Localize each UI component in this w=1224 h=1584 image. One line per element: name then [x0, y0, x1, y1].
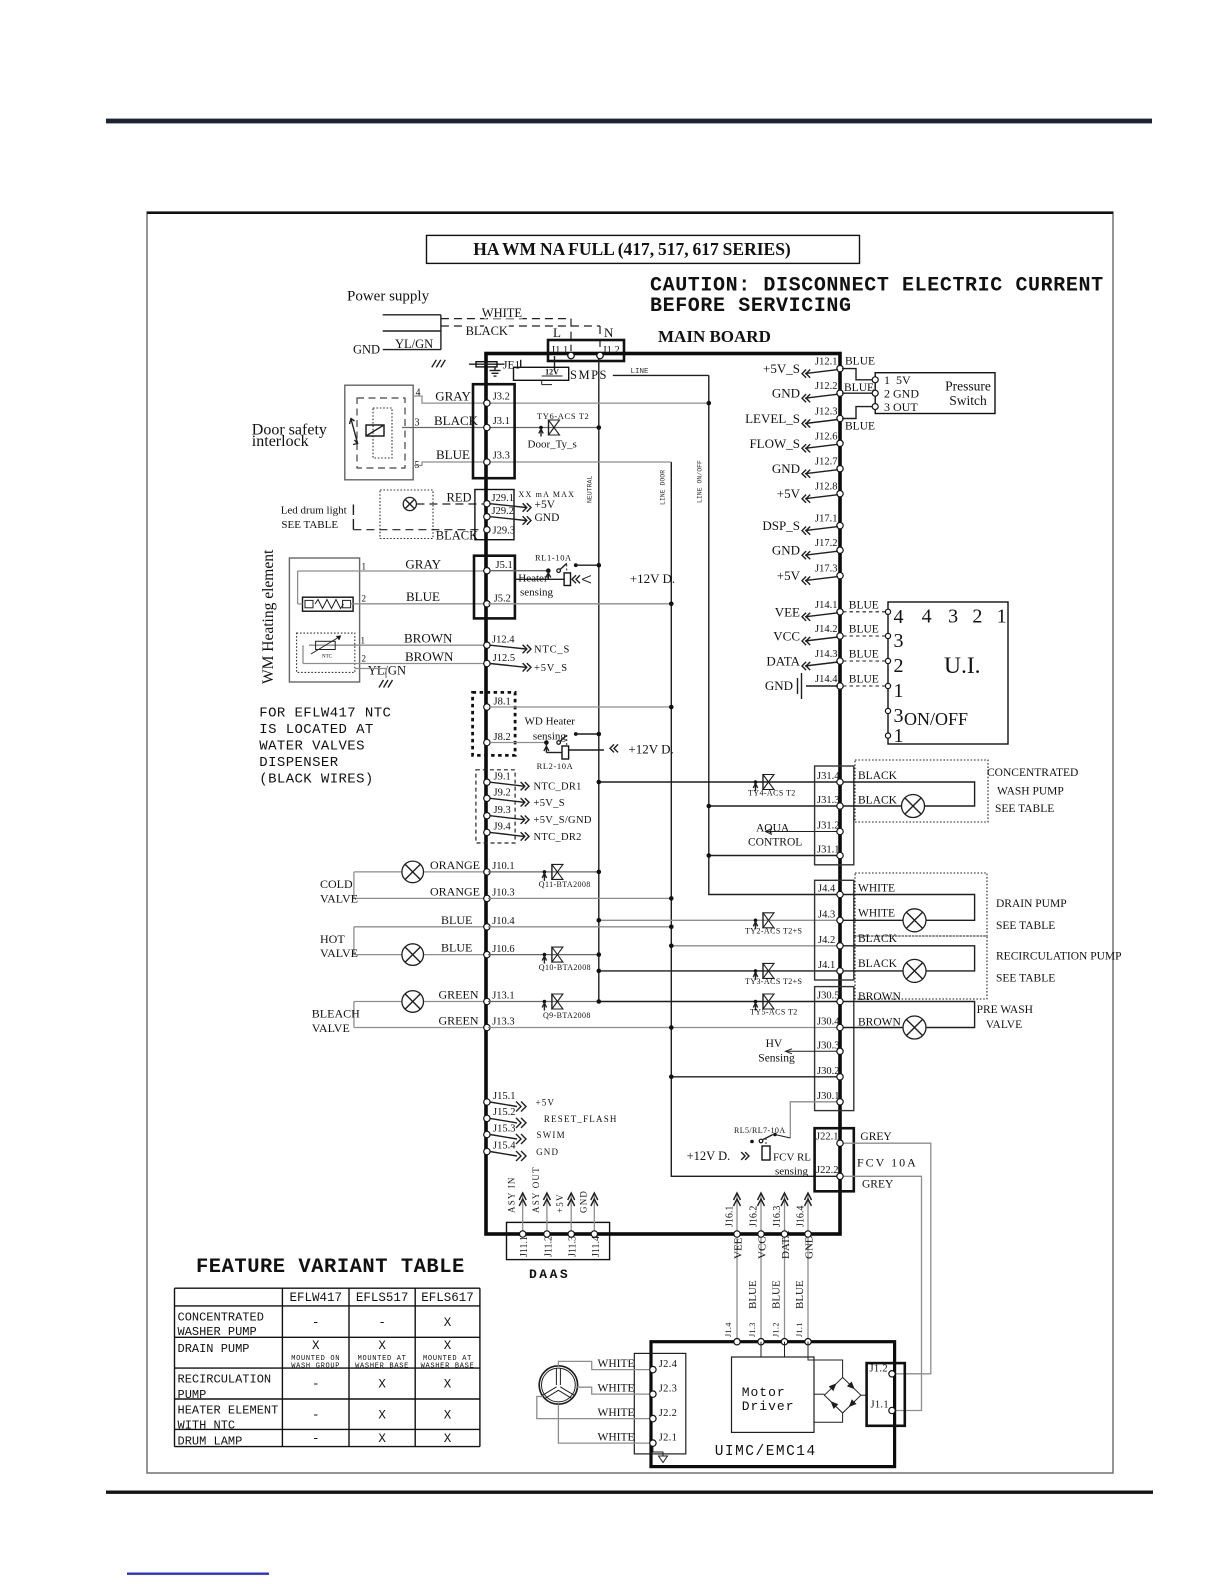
svg-text:J2.3: J2.3 [659, 1384, 677, 1395]
svg-text:2: 2 [972, 606, 982, 628]
svg-text:J13.1: J13.1 [492, 991, 514, 1002]
svg-text:GREEN: GREEN [439, 1014, 479, 1028]
svg-text:1: 1 [997, 606, 1007, 628]
svg-text:Heater: Heater [518, 573, 548, 585]
svg-text:J31.4: J31.4 [817, 771, 840, 782]
svg-text:NTC: NTC [322, 655, 333, 660]
svg-text:NEUTRAL: NEUTRAL [587, 476, 594, 503]
svg-text:BLUE: BLUE [844, 382, 874, 394]
svg-text:J30.5: J30.5 [817, 991, 839, 1002]
svg-text:BLUE: BLUE [849, 674, 879, 686]
svg-text:interlock: interlock [252, 433, 309, 450]
svg-text:J30.3: J30.3 [817, 1040, 839, 1051]
svg-text:NTC_DR1: NTC_DR1 [534, 782, 582, 793]
svg-text:J9.3: J9.3 [494, 805, 511, 816]
svg-text:IS LOCATED AT: IS LOCATED AT [259, 722, 373, 738]
svg-text:X: X [444, 1432, 452, 1446]
svg-text:X: X [378, 1339, 386, 1353]
svg-text:sensing: sensing [533, 731, 567, 743]
svg-text:J1.1: J1.1 [795, 1322, 804, 1337]
svg-text:VEE: VEE [733, 1237, 745, 1259]
svg-text:SEE TABLE: SEE TABLE [281, 519, 338, 531]
svg-text:HOT: HOT [320, 932, 345, 946]
svg-text:+5V: +5V [555, 1193, 565, 1213]
svg-text:-: - [312, 1409, 320, 1423]
svg-text:4: 4 [416, 388, 421, 399]
svg-text:J29.2: J29.2 [492, 506, 514, 517]
svg-text:J31.3: J31.3 [817, 795, 839, 806]
svg-text:J16.4: J16.4 [796, 1206, 807, 1227]
svg-text:LEVEL_S: LEVEL_S [745, 411, 800, 426]
svg-text:Power supply: Power supply [347, 289, 430, 305]
svg-text:3: 3 [894, 705, 904, 727]
svg-text:SEE TABLE: SEE TABLE [996, 973, 1055, 985]
svg-text:J3.2: J3.2 [493, 392, 510, 403]
svg-text:VALVE: VALVE [312, 1021, 350, 1035]
svg-text:X: X [444, 1316, 452, 1330]
svg-text:J8.2: J8.2 [494, 732, 511, 743]
svg-text:BROWN: BROWN [858, 1017, 902, 1029]
svg-text:LINE DOOR: LINE DOOR [660, 470, 667, 505]
svg-text:J1.2: J1.2 [870, 1364, 888, 1375]
svg-text:GND: GND [804, 1235, 816, 1259]
svg-text:DSP_S: DSP_S [762, 518, 800, 533]
svg-text:J1.1: J1.1 [871, 1400, 889, 1411]
svg-text:X: X [444, 1409, 452, 1423]
svg-text:JE1: JE1 [503, 360, 521, 372]
svg-text:sensing: sensing [775, 1166, 809, 1178]
svg-text:J10.6: J10.6 [492, 944, 514, 955]
svg-text:DAAS: DAAS [529, 1267, 570, 1282]
svg-text:J8.1: J8.1 [494, 696, 511, 707]
svg-text:RECIRCULATION: RECIRCULATION [178, 1373, 272, 1387]
svg-text:J2.2: J2.2 [659, 1408, 677, 1419]
svg-text:J9.1: J9.1 [494, 771, 511, 782]
svg-text:1: 1 [894, 725, 904, 747]
svg-text:HA WM NA FULL (417, 517, 617 S: HA WM NA FULL (417, 517, 617 SERIES) [473, 239, 791, 259]
svg-text:BROWN: BROWN [858, 991, 902, 1003]
svg-text:GND: GND [772, 461, 800, 476]
svg-text:GRAY: GRAY [405, 557, 441, 572]
svg-text:J11.4: J11.4 [591, 1236, 602, 1257]
svg-text:J14.3: J14.3 [815, 649, 837, 660]
svg-text:YL/GN: YL/GN [368, 664, 406, 678]
svg-text:+5V_S: +5V_S [534, 798, 565, 809]
svg-text:NTC_DR2: NTC_DR2 [534, 832, 582, 843]
svg-text:WHITE: WHITE [598, 1383, 635, 1395]
svg-text:J12.3: J12.3 [815, 407, 837, 418]
svg-text:J17.2: J17.2 [815, 538, 837, 549]
svg-text:RESET_FLASH: RESET_FLASH [544, 1114, 618, 1124]
svg-text:J4.3: J4.3 [818, 909, 835, 920]
svg-text:J1.3: J1.3 [748, 1322, 757, 1337]
svg-text:GREY: GREY [862, 1179, 894, 1191]
svg-text:J12.4: J12.4 [492, 634, 515, 645]
svg-text:GND: GND [765, 678, 793, 693]
svg-text:VALVE: VALVE [320, 946, 358, 960]
svg-text:J9.2: J9.2 [494, 788, 511, 799]
svg-text:VALVE: VALVE [320, 892, 358, 906]
svg-text:RED: RED [447, 491, 472, 505]
svg-text:BLUE: BLUE [794, 1280, 806, 1309]
svg-text:(BLACK WIRES): (BLACK WIRES) [259, 772, 373, 788]
svg-text:BLUE: BLUE [747, 1280, 759, 1309]
svg-text:3: 3 [948, 606, 958, 628]
svg-text:RECIRCULATION PUMP: RECIRCULATION PUMP [996, 951, 1122, 963]
svg-text:Switch: Switch [949, 393, 987, 408]
svg-text:+12V D.: +12V D. [628, 742, 673, 757]
svg-text:U.I.: U.I. [944, 653, 981, 679]
svg-text:J4.2: J4.2 [818, 935, 835, 946]
svg-text:CONCENTRATED: CONCENTRATED [178, 1310, 264, 1324]
svg-text:GND: GND [536, 1147, 559, 1157]
svg-text:Sensing: Sensing [758, 1053, 795, 1065]
svg-text:2 GND: 2 GND [884, 387, 919, 401]
svg-text:J31.1: J31.1 [817, 845, 839, 856]
svg-text:ASY IN: ASY IN [507, 1176, 517, 1213]
svg-text:WHITE: WHITE [598, 1407, 635, 1419]
svg-text:J5.2: J5.2 [494, 593, 511, 604]
svg-text:GREY: GREY [860, 1131, 892, 1143]
svg-text:J11.3: J11.3 [568, 1236, 579, 1257]
svg-text:J1.4: J1.4 [724, 1322, 733, 1337]
svg-text:4: 4 [894, 606, 904, 628]
svg-text:NTC_S: NTC_S [534, 645, 570, 656]
svg-text:J14.4: J14.4 [815, 674, 838, 685]
svg-text:J30.1: J30.1 [817, 1091, 839, 1102]
svg-text:2: 2 [362, 654, 367, 664]
svg-text:J11.1: J11.1 [519, 1236, 530, 1257]
svg-text:ON/OFF: ON/OFF [904, 709, 968, 729]
svg-text:2: 2 [362, 594, 367, 604]
svg-text:+5V: +5V [535, 499, 556, 511]
svg-text:J9.4: J9.4 [494, 822, 512, 833]
svg-text:1: 1 [894, 680, 904, 702]
svg-text:ORANGE: ORANGE [430, 858, 480, 872]
svg-text:WASHER PUMP: WASHER PUMP [178, 1325, 257, 1339]
svg-text:J1.1: J1.1 [551, 345, 568, 356]
svg-text:WASHER BASE: WASHER BASE [355, 1362, 409, 1370]
svg-text:WHITE: WHITE [598, 1358, 635, 1370]
svg-text:WASH PUMP: WASH PUMP [997, 786, 1064, 798]
svg-text:WASHER BASE: WASHER BASE [421, 1362, 475, 1370]
svg-text:BLUE: BLUE [441, 941, 472, 955]
svg-text:J1.2: J1.2 [603, 345, 620, 356]
svg-text:DATA: DATA [766, 654, 800, 669]
svg-text:+5V_S: +5V_S [763, 361, 800, 376]
svg-text:J12.8: J12.8 [815, 482, 837, 493]
svg-text:J30.2: J30.2 [817, 1066, 839, 1077]
svg-text:BLACK: BLACK [466, 324, 508, 338]
svg-text:FCV RL: FCV RL [773, 1152, 811, 1164]
svg-text:RL1-10A: RL1-10A [535, 553, 572, 563]
svg-text:+5V_S: +5V_S [534, 663, 568, 674]
svg-text:Door_Ty_s: Door_Ty_s [528, 439, 577, 451]
svg-text:J14.2: J14.2 [815, 624, 837, 635]
svg-text:EFLW417: EFLW417 [289, 1291, 342, 1305]
svg-text:YL/GN: YL/GN [395, 337, 433, 351]
svg-text:GND: GND [353, 343, 380, 357]
svg-text:J22.2: J22.2 [816, 1165, 838, 1176]
svg-text:TY4-ACS T2: TY4-ACS T2 [748, 789, 796, 798]
svg-text:J15.2: J15.2 [493, 1107, 515, 1118]
svg-text:J10.4: J10.4 [492, 916, 515, 927]
svg-text:EFLS617: EFLS617 [421, 1291, 474, 1305]
svg-text:XX mA MAX: XX mA MAX [519, 490, 576, 499]
svg-text:BLUE: BLUE [849, 599, 879, 611]
svg-text:DRAIN PUMP: DRAIN PUMP [178, 1342, 250, 1356]
svg-text:BLUE: BLUE [771, 1280, 783, 1309]
svg-text:J17.1: J17.1 [815, 514, 837, 525]
svg-text:Q11-BTA2008: Q11-BTA2008 [539, 880, 591, 889]
svg-text:12V: 12V [545, 367, 559, 376]
svg-text:J4.1: J4.1 [818, 960, 835, 971]
svg-text:J31.2: J31.2 [817, 821, 839, 832]
svg-text:X: X [378, 1432, 386, 1446]
svg-text:RL5/RL7-10A: RL5/RL7-10A [734, 1126, 786, 1135]
svg-text:BLUE: BLUE [406, 589, 440, 604]
svg-text:X: X [378, 1378, 386, 1392]
svg-text:J15.1: J15.1 [493, 1091, 515, 1102]
svg-text:J15.3: J15.3 [493, 1123, 515, 1134]
svg-text:J2.4: J2.4 [659, 1359, 678, 1370]
svg-text:Driver: Driver [742, 1399, 795, 1414]
svg-text:Led drum light: Led drum light [281, 505, 347, 517]
svg-text:BLEACH: BLEACH [312, 1007, 360, 1021]
svg-text:WASH GROUP: WASH GROUP [291, 1362, 340, 1370]
svg-text:J10.1: J10.1 [492, 861, 514, 872]
svg-text:J17.3: J17.3 [815, 564, 837, 575]
svg-text:N: N [604, 325, 614, 340]
svg-text:Pressure: Pressure [945, 379, 991, 394]
svg-text:X: X [444, 1339, 452, 1353]
svg-text:WM Heating element: WM Heating element [260, 549, 277, 684]
svg-text:1: 1 [362, 562, 367, 572]
svg-text:TY2-ACS T2+S: TY2-ACS T2+S [745, 927, 802, 936]
svg-text:WHITE: WHITE [858, 908, 895, 920]
svg-text:J13.3: J13.3 [492, 1017, 514, 1028]
svg-text:J14.1: J14.1 [815, 600, 837, 611]
svg-text:1 5V: 1 5V [884, 373, 911, 387]
svg-text:FCV 10A: FCV 10A [857, 1156, 918, 1170]
svg-text:BLUE: BLUE [441, 913, 472, 927]
svg-text:BLUE: BLUE [849, 649, 879, 661]
svg-text:VEE: VEE [775, 604, 800, 619]
svg-text:BLUE: BLUE [849, 624, 879, 636]
svg-text:J12.6: J12.6 [815, 431, 837, 442]
svg-text:BLUE: BLUE [845, 421, 875, 433]
svg-text:RL2-10A: RL2-10A [537, 761, 574, 771]
svg-text:-: - [312, 1378, 320, 1392]
svg-text:L: L [553, 325, 561, 340]
svg-text:FEATURE VARIANT TABLE: FEATURE VARIANT TABLE [196, 1256, 465, 1279]
svg-text:+5V_S/GND: +5V_S/GND [534, 815, 592, 826]
svg-text:Q10-BTA2008: Q10-BTA2008 [539, 963, 591, 972]
svg-text:+12V D.: +12V D. [630, 571, 675, 586]
svg-text:-: - [378, 1316, 386, 1330]
svg-text:SMPS: SMPS [570, 368, 608, 382]
svg-text:PUMP: PUMP [178, 1388, 207, 1402]
svg-text:EFLS517: EFLS517 [356, 1291, 409, 1305]
svg-text:VCC: VCC [773, 629, 800, 644]
svg-text:J12.7: J12.7 [815, 457, 837, 468]
svg-text:CONCENTRATED: CONCENTRATED [987, 767, 1078, 779]
svg-text:GND: GND [578, 1190, 588, 1213]
svg-text:GND: GND [772, 386, 800, 401]
svg-text:BLACK: BLACK [858, 795, 898, 807]
svg-text:3 OUT: 3 OUT [884, 400, 918, 414]
svg-text:J22.1: J22.1 [816, 1132, 838, 1143]
svg-text:Motor: Motor [742, 1385, 786, 1400]
svg-text:MAIN BOARD: MAIN BOARD [658, 327, 771, 346]
svg-text:GREEN: GREEN [439, 988, 479, 1002]
svg-text:1: 1 [361, 636, 366, 646]
svg-text:HV: HV [766, 1038, 783, 1050]
svg-text:SEE TABLE: SEE TABLE [995, 803, 1054, 815]
svg-text:WHITE: WHITE [482, 306, 523, 320]
svg-text:J5.1: J5.1 [496, 560, 513, 571]
svg-text:WHITE: WHITE [598, 1432, 635, 1444]
svg-text:sensing: sensing [520, 587, 554, 599]
svg-text:BLACK: BLACK [858, 958, 898, 970]
svg-text:Q9-BTA2008: Q9-BTA2008 [543, 1011, 591, 1020]
svg-text:WITH NTC: WITH NTC [178, 1419, 236, 1433]
svg-text:GRAY: GRAY [435, 389, 471, 404]
svg-text:TY5-ACS T2: TY5-ACS T2 [750, 1008, 798, 1017]
svg-text:J12.1: J12.1 [815, 357, 837, 368]
svg-text:J3.3: J3.3 [493, 450, 510, 461]
svg-text:4: 4 [922, 606, 932, 628]
svg-text:J29.1: J29.1 [492, 493, 514, 504]
svg-text:X: X [312, 1339, 320, 1353]
svg-text:J16.2: J16.2 [749, 1206, 760, 1227]
svg-text:J3.1: J3.1 [493, 416, 510, 427]
svg-text:J30.4: J30.4 [817, 1017, 840, 1028]
svg-text:CONTROL: CONTROL [748, 837, 802, 849]
svg-text:WHITE: WHITE [858, 883, 895, 895]
svg-text:BLACK: BLACK [436, 529, 478, 543]
svg-text:WATER VALVES: WATER VALVES [259, 739, 365, 755]
svg-text:-: - [312, 1432, 320, 1446]
svg-text:BLUE: BLUE [436, 447, 470, 462]
svg-text:COLD: COLD [320, 877, 353, 891]
svg-text:J15.4: J15.4 [493, 1140, 516, 1151]
svg-text:GND: GND [772, 543, 800, 558]
svg-text:J4.4: J4.4 [818, 884, 836, 895]
svg-text:J2.1: J2.1 [659, 1433, 677, 1444]
svg-text:BEFORE SERVICING: BEFORE SERVICING [650, 295, 852, 318]
svg-text:J16.3: J16.3 [772, 1206, 783, 1227]
svg-text:DRUM LAMP: DRUM LAMP [178, 1434, 243, 1448]
svg-text:J1.2: J1.2 [772, 1322, 781, 1337]
svg-text:WD Heater: WD Heater [525, 716, 576, 728]
svg-text:3: 3 [894, 630, 904, 652]
svg-text:AQUA: AQUA [756, 823, 790, 835]
svg-text:FLOW_S: FLOW_S [749, 436, 800, 451]
svg-text:GND: GND [535, 512, 560, 524]
svg-text:+5V: +5V [777, 486, 801, 501]
svg-text:+5V: +5V [536, 1098, 556, 1108]
svg-text:FOR EFLW417 NTC: FOR EFLW417 NTC [259, 706, 391, 722]
svg-text:BLACK: BLACK [858, 770, 898, 782]
svg-text:PRE WASH: PRE WASH [977, 1004, 1033, 1016]
svg-text:TY6-ACS T2: TY6-ACS T2 [537, 411, 589, 421]
svg-text:SEE TABLE: SEE TABLE [996, 920, 1055, 932]
svg-text:J10.3: J10.3 [492, 888, 514, 899]
svg-text:VCC: VCC [757, 1236, 769, 1259]
svg-text:DISPENSER: DISPENSER [259, 755, 338, 771]
svg-text:X: X [378, 1409, 386, 1423]
svg-text:ASY OUT: ASY OUT [531, 1166, 541, 1213]
svg-text:TY3-ACS T2+S: TY3-ACS T2+S [745, 977, 802, 986]
svg-text:J12.5: J12.5 [493, 653, 515, 664]
svg-text:X: X [444, 1378, 452, 1392]
svg-text:J12.2: J12.2 [815, 381, 837, 392]
svg-text:BROWN: BROWN [405, 649, 454, 664]
svg-text:LINE ON/OFF: LINE ON/OFF [697, 460, 704, 503]
svg-text:BLUE: BLUE [845, 356, 875, 368]
svg-text:+5V: +5V [777, 568, 801, 583]
svg-text:2: 2 [894, 655, 904, 677]
svg-text:-: - [312, 1316, 320, 1330]
svg-text:VALVE: VALVE [986, 1019, 1022, 1031]
svg-text:HEATER ELEMENT: HEATER ELEMENT [178, 1404, 279, 1418]
svg-text:SWIM: SWIM [537, 1130, 566, 1140]
svg-text:BLACK: BLACK [858, 933, 898, 945]
svg-text:UIMC/EMC14: UIMC/EMC14 [715, 1444, 817, 1460]
svg-text:J29.3: J29.3 [493, 526, 515, 537]
svg-text:J11.2: J11.2 [543, 1236, 554, 1257]
svg-text:DRAIN PUMP: DRAIN PUMP [996, 898, 1067, 910]
svg-text:+12V D.: +12V D. [687, 1149, 731, 1163]
svg-text:J16.1: J16.1 [725, 1206, 736, 1227]
svg-text:ORANGE: ORANGE [430, 884, 480, 898]
svg-text:BROWN: BROWN [404, 631, 453, 646]
